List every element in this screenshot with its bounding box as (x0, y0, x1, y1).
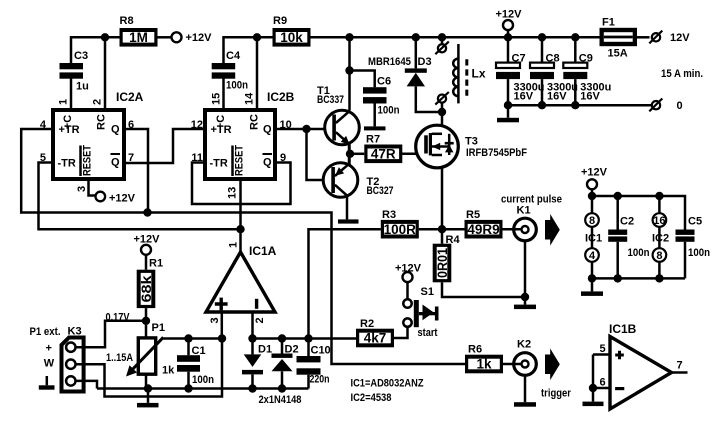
svg-text:RESET: RESET (82, 145, 94, 176)
svg-text:220n: 220n (310, 374, 330, 386)
svg-text:14: 14 (244, 92, 256, 105)
svg-text:6: 6 (600, 377, 606, 389)
svg-text:C6: C6 (377, 76, 391, 88)
svg-text:Q: Q (263, 124, 272, 136)
svg-text:100n: 100n (628, 247, 650, 259)
svg-text:C5: C5 (688, 216, 702, 228)
svg-text:-TR: -TR (210, 158, 228, 170)
svg-text:16V: 16V (514, 91, 534, 103)
svg-text:3: 3 (209, 317, 221, 323)
svg-text:2: 2 (92, 99, 104, 105)
svg-text:16: 16 (653, 215, 665, 227)
svg-text:IC1=AD8032ANZ: IC1=AD8032ANZ (351, 378, 424, 390)
svg-text:Q: Q (263, 157, 272, 169)
svg-text:49R9: 49R9 (467, 222, 499, 237)
svg-text:10k: 10k (280, 30, 303, 45)
svg-text:3: 3 (76, 186, 88, 192)
svg-text:K2: K2 (517, 339, 531, 351)
svg-text:Lx: Lx (472, 67, 486, 81)
svg-text:R9: R9 (273, 15, 287, 27)
svg-text:C10: C10 (311, 345, 331, 357)
svg-text:IC2B: IC2B (267, 90, 295, 104)
svg-text:12V: 12V (670, 32, 690, 44)
svg-text:R6: R6 (468, 344, 482, 356)
svg-text:C4: C4 (226, 50, 241, 62)
svg-text:1: 1 (58, 99, 70, 105)
svg-text:2x1N4148: 2x1N4148 (259, 394, 302, 406)
svg-text:BC337: BC337 (317, 94, 344, 106)
svg-text:D1: D1 (258, 344, 272, 356)
svg-text:+12V: +12V (496, 9, 523, 21)
svg-text:15 A min.: 15 A min. (661, 68, 703, 80)
svg-text:start: start (418, 327, 438, 339)
svg-text:IRFB7545PbF: IRFB7545PbF (466, 147, 527, 159)
svg-text:IC2=4538: IC2=4538 (351, 392, 392, 404)
svg-text:16V: 16V (547, 91, 567, 103)
svg-text:2: 2 (254, 317, 266, 323)
svg-text:IC1: IC1 (585, 233, 602, 245)
svg-text:IC1B: IC1B (609, 322, 637, 336)
svg-text:8: 8 (656, 250, 662, 262)
svg-text:R5: R5 (466, 209, 480, 221)
svg-text:D3: D3 (418, 56, 432, 68)
svg-text:8: 8 (589, 215, 595, 227)
svg-text:9: 9 (280, 152, 286, 164)
svg-text:0R01: 0R01 (435, 248, 450, 278)
svg-text:100n: 100n (688, 247, 710, 259)
svg-text:7: 7 (677, 360, 683, 372)
svg-text:BC327: BC327 (367, 185, 394, 197)
svg-text:47R: 47R (371, 147, 396, 162)
svg-text:+12V: +12V (395, 263, 422, 275)
svg-text:P1: P1 (152, 322, 165, 334)
svg-text:Q: Q (111, 124, 120, 136)
svg-text:5: 5 (600, 343, 606, 355)
svg-text:MBR1645: MBR1645 (368, 56, 411, 68)
svg-text:C8: C8 (546, 52, 560, 64)
svg-text:1k: 1k (476, 357, 492, 372)
svg-text:0.17V: 0.17V (106, 312, 131, 324)
svg-text:100n: 100n (192, 374, 214, 386)
svg-text:+TR: +TR (59, 124, 80, 136)
svg-text:RESET: RESET (234, 145, 246, 176)
svg-text:RC: RC (249, 114, 261, 130)
svg-text:4: 4 (40, 119, 47, 131)
svg-text:C7: C7 (512, 52, 526, 64)
svg-text:D2: D2 (285, 344, 299, 356)
svg-text:R2: R2 (360, 318, 374, 330)
svg-text:+12V: +12V (109, 193, 136, 205)
svg-text:+: + (46, 343, 52, 355)
svg-text:6: 6 (128, 119, 134, 131)
svg-text:current pulse: current pulse (501, 194, 562, 206)
svg-text:R8: R8 (120, 15, 134, 27)
svg-text:-TR: -TR (58, 158, 76, 170)
svg-text:7: 7 (128, 152, 134, 164)
svg-text:Q: Q (111, 157, 120, 169)
svg-text:0: 0 (677, 100, 683, 112)
svg-text:5: 5 (40, 152, 46, 164)
svg-text:+TR: +TR (211, 124, 232, 136)
svg-text:+12V: +12V (134, 234, 161, 246)
svg-text:K1: K1 (517, 205, 531, 217)
svg-text:+12V: +12V (186, 32, 213, 44)
svg-text:4: 4 (589, 250, 596, 262)
svg-text:16V: 16V (580, 91, 600, 103)
svg-text:15A: 15A (608, 48, 628, 60)
svg-text:68k: 68k (139, 275, 154, 303)
svg-text:C3: C3 (74, 50, 88, 62)
svg-text:R3: R3 (382, 209, 396, 221)
svg-text:T3: T3 (465, 136, 478, 148)
svg-text:15: 15 (211, 93, 223, 105)
svg-text:13: 13 (227, 187, 239, 199)
svg-text:R7: R7 (366, 134, 380, 146)
svg-text:R4: R4 (446, 234, 461, 246)
svg-text:RC: RC (96, 114, 108, 130)
svg-text:IC2: IC2 (652, 233, 669, 245)
svg-text:C9: C9 (579, 52, 593, 64)
svg-text:P1 ext.: P1 ext. (30, 326, 61, 338)
svg-text:C1: C1 (192, 345, 206, 357)
svg-text:W: W (44, 358, 55, 370)
svg-text:IC2A: IC2A (116, 90, 144, 104)
svg-text:IC1A: IC1A (249, 244, 277, 258)
svg-text:+12V: +12V (581, 167, 608, 179)
svg-text:1u: 1u (76, 81, 89, 93)
svg-text:4k7: 4k7 (364, 331, 387, 346)
svg-text:1M: 1M (129, 30, 148, 45)
svg-text:K3: K3 (68, 325, 82, 337)
svg-text:1: 1 (228, 242, 240, 248)
svg-text:12: 12 (191, 119, 203, 131)
svg-text:trigger: trigger (541, 388, 572, 400)
svg-text:100R: 100R (384, 222, 417, 237)
svg-text:1k: 1k (162, 365, 175, 377)
svg-text:R1: R1 (149, 258, 163, 270)
svg-text:10: 10 (280, 119, 292, 131)
svg-text:100n: 100n (226, 80, 248, 92)
svg-text:11: 11 (191, 152, 203, 164)
svg-text:F1: F1 (602, 17, 615, 29)
svg-text:C2: C2 (620, 216, 634, 228)
svg-text:S1: S1 (421, 286, 434, 298)
svg-text:100n: 100n (378, 105, 400, 117)
svg-text:1..15A: 1..15A (106, 352, 133, 364)
